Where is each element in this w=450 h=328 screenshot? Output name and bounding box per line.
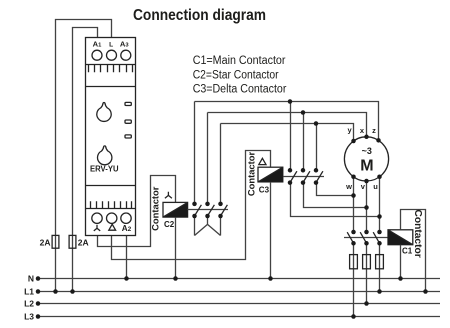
svg-text:C1: C1	[402, 247, 413, 256]
svg-text:z: z	[372, 126, 376, 135]
svg-text:C3=Delta Contactor: C3=Delta Contactor	[193, 84, 287, 96]
svg-text:C2=Star Contactor: C2=Star Contactor	[193, 69, 279, 81]
svg-text:ERV-YU: ERV-YU	[90, 165, 119, 174]
svg-text:~3: ~3	[362, 146, 372, 156]
svg-text:C2: C2	[164, 220, 175, 229]
svg-text:w: w	[345, 182, 352, 191]
svg-text:2A: 2A	[78, 238, 89, 248]
svg-text:Contactor: Contactor	[150, 186, 161, 231]
svg-text:Connection diagram: Connection diagram	[133, 7, 266, 24]
svg-text:L2: L2	[24, 299, 34, 309]
svg-text:2A: 2A	[40, 238, 51, 248]
svg-text:N: N	[28, 274, 34, 284]
svg-text:C3: C3	[259, 186, 270, 195]
svg-text:C1=Main Contactor: C1=Main Contactor	[193, 55, 286, 67]
svg-text:L: L	[109, 41, 113, 48]
svg-text:M: M	[360, 157, 373, 174]
svg-text:A2: A2	[122, 224, 132, 233]
svg-text:L1: L1	[24, 287, 34, 297]
svg-text:L3: L3	[24, 312, 34, 322]
svg-text:Contactor: Contactor	[412, 210, 423, 258]
svg-text:Contactor: Contactor	[246, 152, 257, 197]
svg-text:u: u	[373, 182, 378, 191]
